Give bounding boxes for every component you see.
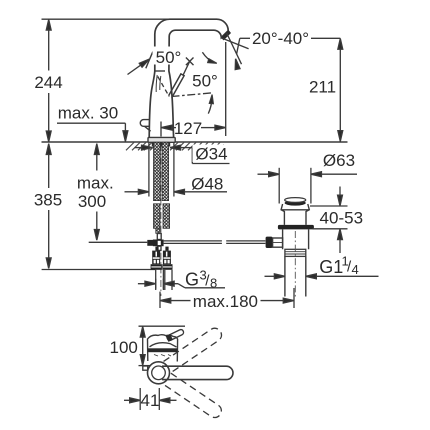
top view spout solid — [162, 366, 233, 379]
rotation arc arrow at spout — [202, 52, 214, 62]
svg-text:127: 127 — [174, 119, 202, 138]
svg-text:G: G — [185, 270, 199, 290]
dim 40-53 — [310, 205, 348, 207]
rod knurl screw — [147, 240, 153, 246]
faucet centerline — [160, 144, 162, 296]
pop-up rod clamp block — [153, 240, 164, 247]
mounting nut under deck — [152, 142, 170, 146]
rod left wire — [89, 241, 148, 243]
dim 211 — [339, 38, 341, 141]
spout tip fill — [221, 30, 231, 40]
handle X mark — [186, 58, 194, 66]
dim O48 ext lines — [148, 143, 150, 197]
pop-up knob — [140, 120, 150, 127]
supply connector left block — [151, 247, 173, 270]
threaded shank right bar — [162, 142, 169, 200]
dim 41 — [139, 388, 141, 410]
pop-up rod stem upper — [157, 234, 161, 240]
handle lever — [169, 74, 185, 98]
svg-text:max.: max. — [77, 173, 114, 192]
drain flange ring — [278, 225, 314, 230]
top view spout dashed up — [164, 326, 225, 373]
svg-text:41: 41 — [141, 391, 160, 410]
svg-text:244: 244 — [34, 73, 62, 92]
top view handle — [166, 328, 185, 342]
handle leader line — [183, 61, 190, 75]
dim max300 — [96, 144, 98, 171]
arc arrow to dash line — [208, 97, 212, 114]
svg-text:max. 30: max. 30 — [58, 103, 118, 122]
drain centerline — [294, 231, 296, 299]
svg-text:50°: 50° — [156, 48, 182, 67]
threaded shank left bar — [154, 142, 161, 200]
handle axis dash line — [158, 77, 169, 97]
pop-up rod stem lower — [158, 246, 162, 250]
hose left stem — [156, 228, 160, 233]
drain cap — [285, 200, 306, 205]
tip V lines — [227, 33, 242, 64]
top view body circle — [148, 362, 170, 384]
dim 244 — [48, 19, 50, 70]
dim 20-40 lines — [240, 37, 250, 39]
svg-text:300: 300 — [78, 192, 106, 211]
svg-text:385: 385 — [34, 191, 62, 210]
svg-text:Ø48: Ø48 — [191, 174, 223, 193]
flexible hose left — [154, 204, 161, 229]
svg-text:Ø63: Ø63 — [323, 151, 355, 170]
svg-text:Ø34: Ø34 — [195, 145, 227, 164]
svg-text:8: 8 — [210, 276, 217, 291]
angle arrow 50a — [128, 62, 146, 75]
drain body — [283, 229, 309, 249]
svg-text:20°-40°: 20°-40° — [252, 29, 309, 48]
dim max30 — [57, 122, 125, 124]
angle tick — [146, 52, 153, 69]
base plate — [148, 137, 175, 142]
flexible hose right — [163, 204, 170, 229]
dim G38 — [155, 279, 157, 289]
drain head — [281, 204, 309, 225]
dim 100 — [142, 326, 144, 365]
body joint line — [155, 70, 165, 72]
dim 385 — [48, 144, 50, 189]
dim O34 arrows — [135, 147, 142, 149]
pop-up tab top view — [143, 366, 148, 370]
svg-text:4: 4 — [352, 262, 359, 277]
dim 127 — [160, 122, 162, 137]
top view spout dashed down — [163, 373, 224, 420]
dim G114 — [265, 275, 275, 277]
body shading arcs — [156, 75, 161, 92]
rod clamp at drain — [266, 237, 273, 248]
dim max180 — [159, 292, 161, 308]
label O34 — [193, 145, 231, 163]
top view body block — [148, 335, 178, 362]
label G114 — [319, 254, 358, 278]
svg-text:G1: G1 — [319, 257, 343, 277]
svg-text:50°: 50° — [192, 72, 218, 91]
label 50 first — [153, 47, 184, 65]
svg-text:40-53: 40-53 — [320, 208, 363, 227]
svg-text:100: 100 — [110, 338, 138, 357]
rod right tube — [164, 240, 222, 242]
drain nut — [285, 249, 306, 256]
deck hatching — [126, 142, 224, 150]
handle open dash-dot line — [172, 93, 214, 97]
label 127 — [176, 118, 201, 136]
wire deck reference line — [42, 141, 348, 143]
svg-text:211: 211 — [309, 78, 336, 97]
svg-text:max.180: max.180 — [193, 292, 258, 311]
label 41 — [142, 393, 158, 408]
label O48 — [189, 174, 228, 191]
label G38 — [185, 268, 217, 291]
supply tails — [155, 270, 157, 290]
drain tailpipe — [284, 256, 286, 296]
faucet body and spout outline — [149, 19, 228, 137]
dim O63 — [278, 168, 280, 204]
